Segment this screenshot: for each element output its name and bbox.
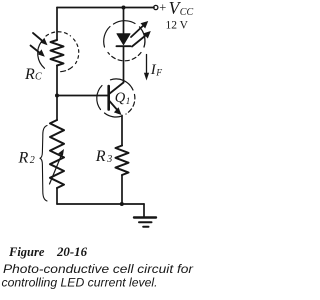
svg-text:2: 2 [30,155,35,166]
svg-text:+: + [159,1,166,15]
svg-text:R: R [18,149,29,166]
svg-text:CC: CC [180,7,194,18]
R2 wiper arrow [50,153,63,185]
svg-text:12 V: 12 V [166,18,189,32]
wire bottom rail [57,203,144,205]
junction node top rail / LED [122,6,126,10]
arrowhead IF [144,73,149,81]
svg-text:C: C [35,72,42,83]
light arrow into RC (upper) [33,33,46,44]
terminal +Vcc [154,5,158,9]
svg-text:controlling LED current level.: controlling LED current level. [2,276,158,290]
LED light arrow (lower) [132,34,148,47]
svg-text:Photo-conductive cell circuit: Photo-conductive cell circuit for [3,262,194,276]
resistor R3 [116,146,129,176]
brace for R2 [40,126,47,202]
transistor Q1 collector lead [109,83,124,95]
wire left rail upper [56,8,58,41]
LED envelope circle [104,27,110,48]
photocell resistor RC [51,40,64,66]
transistor Q1 envelope circle [97,86,102,110]
junction node bottom rail / R3 [120,202,124,206]
arrowhead emitter [114,107,122,115]
wire ground drop [143,204,145,217]
wire R3 to bottom rail [121,175,123,204]
LED light arrow (upper) [131,24,146,38]
svg-text:3: 3 [106,154,112,165]
arrowhead light arrow RC upper [41,38,48,46]
ground [134,216,156,218]
wire base lead [57,95,108,97]
wire emitter to R3 [121,116,123,146]
LED D1 cathode bar [117,45,131,47]
resistor R2 [50,120,64,188]
svg-text:Q: Q [115,90,126,106]
svg-text:20-16: 20-16 [56,245,88,259]
arrowhead LED light upper [141,21,149,29]
transistor Q1 emitter lead [109,101,120,113]
arrowhead R2 wiper [58,149,64,156]
transistor Q1 base bar [107,86,110,110]
photocell RC envelope circle [38,42,45,69]
wire R2 to bottom rail [56,188,58,204]
arrowhead LED light lower [143,31,151,39]
svg-text:R: R [24,66,35,83]
wire LED anode [123,8,125,35]
svg-text:F: F [155,69,162,79]
wire left rail mid (RC to base node) [56,66,58,96]
wire top rail [57,7,154,9]
svg-text:R: R [95,148,106,165]
LED D1 triangle [117,34,130,45]
current arrow IF [146,55,148,75]
svg-text:1: 1 [126,96,131,106]
light arrow into RC (lower) [31,46,43,56]
junction node left rail / base [55,94,59,98]
arrowhead light arrow RC lower [38,49,45,56]
svg-text:Figure: Figure [8,245,45,259]
wire left rail lower (node to R2) [56,96,58,121]
wire LED cathode to collector [123,46,125,82]
